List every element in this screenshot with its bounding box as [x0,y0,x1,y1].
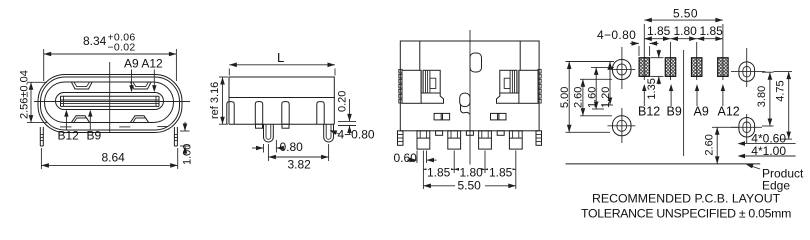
label leader A12 [722,86,724,106]
dimension 5.50 [423,185,515,187]
bottom stub A [436,131,443,136]
svg-text:A9 A12: A9 A12 [124,57,163,71]
dimension row 1.85 1.80 1.85 top [644,38,723,40]
svg-text:1.85: 1.85 [647,24,671,38]
svg-text:4.75: 4.75 [775,80,787,101]
tongue holder outline [56,93,164,110]
svg-text:4−0.80: 4−0.80 [597,28,636,42]
extension line 1.60 bottom [592,108,604,110]
dimension row 1.85 1.80 1.85 [423,168,515,170]
extension line top row [566,61,614,63]
SMT leg 3 [479,131,492,149]
solder stub B [282,124,289,128]
extension line oval center [591,66,614,68]
svg-text:8.64: 8.64 [102,151,126,165]
label leader B12 [643,86,645,106]
outer shell stadium [38,75,182,133]
center cutout upper finger [470,53,482,72]
hole pad bottom-right [731,114,762,143]
dimension 2.60 [582,79,584,116]
dimension 5.50 top [644,19,723,21]
svg-text:1.00: 1.00 [182,144,194,165]
PCB centerline [683,50,685,156]
hole pad top-right [731,48,765,87]
bottom latch bump left [72,116,90,123]
dimension 3.82 [267,144,269,161]
vertical centerline of front view [109,62,111,133]
extension line 2.60 bottom [580,115,612,117]
svg-text:2.56±0.04: 2.56±0.04 [19,70,31,119]
contact pin 4 [317,102,324,125]
contact pin 3 [282,102,289,125]
dimension 5.00 [568,62,570,133]
right corner foot [536,131,542,146]
bottom stub C [497,131,504,136]
inner edge line right [519,41,521,70]
extension line 5.00 bottom [566,131,611,133]
dimension 0.80 [263,144,265,153]
dimension 8.34 +0.06/-0.02 [43,49,45,81]
dimension 1.00 [180,130,190,132]
svg-text:1.85: 1.85 [489,165,513,179]
dimension 1.35 [651,57,664,59]
pad centerline A12 [722,24,724,80]
SMT leg 2 [448,131,461,149]
inner edge line left [419,41,421,70]
leader B9 [89,112,91,130]
svg-text:A12: A12 [718,105,740,119]
leader A12 [153,70,155,91]
svg-text:5.50: 5.50 [458,178,482,192]
left shield contact block [399,69,444,103]
hole pad top-left [608,47,636,89]
svg-text:B12: B12 [58,128,80,142]
leader A9 [131,70,133,91]
left corner foot [398,131,404,146]
SMT pad B9 [665,58,676,77]
bottom latch bump right [131,116,149,123]
right shield contact block (mirror) [497,69,542,103]
svg-text:0.20: 0.20 [337,91,349,112]
leader B12 [65,112,67,130]
svg-text:3.80: 3.80 [756,86,768,107]
svg-text:5.50: 5.50 [673,7,698,21]
dimension 0.20 [338,120,356,122]
svg-text:B12: B12 [638,105,660,119]
small window pair left [434,113,450,120]
dimension 4-0.80 [638,46,640,56]
center cutout lower hook [461,104,470,114]
hole pad bottom-left [608,108,636,143]
svg-text:4−0.80: 4−0.80 [338,128,375,142]
tongue right end tick [158,96,160,106]
bottom stub B [466,131,473,136]
shell box [229,77,334,98]
dimension 1.60 [595,67,597,109]
dimension ref 3.16 [219,76,228,78]
svg-text:2.60: 2.60 [573,87,585,108]
small window pair right [491,113,507,120]
right mounting leg [173,127,175,146]
svg-text:5.00: 5.00 [559,87,571,108]
cavity stadium [45,82,174,123]
dimension 3.80 [762,71,774,73]
svg-text:1.85: 1.85 [700,24,724,38]
SMT leg 1 [417,131,430,149]
svg-text:1.60: 1.60 [586,87,598,108]
dimension 2.56±0.04 [27,81,47,83]
label leader B9 [670,86,672,106]
svg-text:1.80: 1.80 [460,165,484,179]
housing outline [400,41,539,131]
svg-text:−0.02: −0.02 [108,42,136,54]
svg-text:1.20: 1.20 [600,87,612,108]
svg-text:RECOMMENDED P.C.B. LAYOUT: RECOMMENDED P.C.B. LAYOUT [592,192,781,206]
top latch notch left [72,82,93,89]
dimension 2.60 bottom [712,126,739,128]
svg-text:A9: A9 [694,105,709,119]
contact pin 2 [255,102,262,125]
svg-text:B9: B9 [667,105,682,119]
svg-text:TOLERANCE UNSPECIFIED ± 0.05mm: TOLERANCE UNSPECIFIED ± 0.05mm [581,207,791,221]
vertical centerline [469,30,471,172]
horizontal centerline of front view [34,101,190,103]
SMT pad A12 [718,58,729,77]
center cutout middle tab [460,93,470,107]
SMT leg 4 [509,131,522,149]
dimension 0.60 [416,151,418,164]
shell bottom slot marks [60,126,72,128]
svg-text:L: L [277,50,284,65]
pad centerline B9 [670,42,672,80]
insulator base line [229,123,334,125]
svg-text:0.80: 0.80 [280,140,304,154]
label leader A9 [696,86,698,106]
left through-hole leg [264,124,274,142]
dimension L [228,69,230,76]
svg-text:ref 3.16: ref 3.16 [209,82,221,119]
shell wall inner line [41,77,180,130]
top latch notch right [131,82,152,89]
tongue contact lines [61,95,160,97]
contact pin 1 (clipped) [227,102,234,125]
dimension 1.20 [609,62,611,106]
svg-text:8.34: 8.34 [83,34,107,48]
svg-text:2.60: 2.60 [704,134,716,155]
dimension 4.75 [774,71,793,73]
pad centerline A9 [696,42,698,80]
svg-text:B9: B9 [87,128,102,142]
svg-text:3.82: 3.82 [288,158,312,172]
product edge line [566,163,761,165]
left mounting leg [39,127,41,146]
right through-hole leg [324,124,334,142]
svg-text:1.35: 1.35 [646,78,658,99]
leg centerline extensions [422,151,424,190]
SMT pad A9 [691,58,702,77]
pad centerline B12 [643,24,645,80]
SMT pad B12 [639,58,650,77]
tongue left end ticks [60,96,62,106]
svg-text:1.80: 1.80 [674,24,698,38]
extension line pad bottom row [580,78,612,80]
svg-text:1.85: 1.85 [427,165,451,179]
svg-text:Edge: Edge [762,179,790,193]
solder stub A [256,124,263,128]
dimension 8.64 [40,148,42,169]
svg-text:0.60: 0.60 [394,151,418,165]
